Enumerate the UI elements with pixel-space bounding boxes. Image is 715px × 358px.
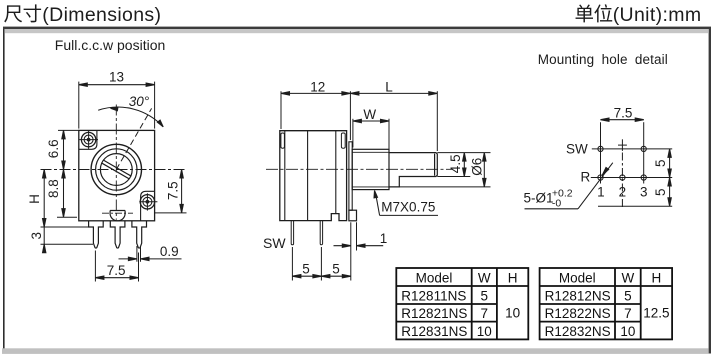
side view: pin B: [320, 221, 322, 245]
svg-text:10: 10: [477, 324, 492, 339]
svg-text:7.5: 7.5: [166, 181, 181, 200]
svg-text:R12812NS: R12812NS: [545, 289, 611, 304]
detail: hole 1: [598, 175, 603, 180]
svg-text:5: 5: [624, 289, 632, 304]
dimension 1 (lug): [334, 222, 388, 250]
svg-text:5: 5: [481, 289, 489, 304]
svg-text:10: 10: [505, 306, 520, 321]
svg-text:H: H: [508, 271, 518, 286]
svg-text:12.5: 12.5: [643, 306, 669, 321]
front view: pin 3: [132, 221, 147, 248]
svg-text:-0: -0: [552, 198, 561, 210]
svg-text:R12832NS: R12832NS: [545, 324, 611, 339]
svg-text:Mounting hole detail: Mounting hole detail: [538, 52, 668, 67]
dimension 7.5 (hole spacing): [601, 106, 644, 122]
dimension 8.8: [46, 170, 77, 218]
side view: crimp tab top-right: [341, 133, 345, 148]
svg-text:L: L: [385, 79, 393, 94]
front view: pin 2: [110, 221, 125, 248]
dimension 5 5 (side pins): [292, 222, 350, 280]
svg-text:R12831NS: R12831NS: [401, 324, 467, 339]
svg-text:7.5: 7.5: [107, 263, 126, 278]
svg-text:0.9: 0.9: [160, 244, 179, 259]
svg-text:8.8: 8.8: [46, 179, 61, 198]
svg-text:30°: 30°: [129, 94, 150, 109]
svg-text:(Unit):mm: (Unit):mm: [613, 4, 702, 26]
side view: body outline with bottom step: [280, 131, 347, 221]
side view: centerline: [266, 168, 453, 170]
front view: shaft circles: [91, 144, 141, 194]
detail: hole 2: [620, 175, 625, 180]
side view: shaft with flat: [389, 153, 437, 187]
frame bottom gray bar: [2, 348, 709, 354]
svg-text:R: R: [581, 170, 591, 185]
svg-text:W: W: [363, 107, 376, 122]
svg-text:5-Ø1: 5-Ø1: [524, 191, 554, 206]
svg-text:M7X0.75: M7X0.75: [381, 200, 435, 215]
svg-text:5: 5: [653, 188, 668, 196]
side view: mounting plate: [349, 142, 352, 210]
svg-text:1: 1: [380, 231, 388, 246]
dimension 30 degrees arc: [98, 94, 163, 127]
frame right border: [709, 29, 711, 354]
dimension 7.5 (pin span): [95, 251, 138, 282]
svg-text:5: 5: [653, 160, 668, 168]
svg-text:6.6: 6.6: [46, 139, 61, 158]
detail: hole SW right: [641, 146, 646, 151]
side view: crimp tab top-left: [281, 133, 285, 148]
front view: screwdriver slot: [101, 160, 131, 179]
detail: hole 3: [641, 175, 646, 180]
dimension 3 (pin length): [29, 227, 93, 253]
dimension 5 (row spacing lower): [653, 178, 671, 207]
frame left border: [3, 29, 5, 349]
svg-text:SW: SW: [263, 235, 286, 251]
svg-text:Model: Model: [559, 271, 596, 286]
detail: R row line: [591, 177, 672, 179]
front view: screw boss top-left: [79, 130, 97, 149]
svg-text:1: 1: [597, 185, 605, 200]
dimension 12 (body depth): [281, 79, 350, 140]
front view: body outline: [79, 130, 155, 220]
svg-text:R12822NS: R12822NS: [545, 306, 611, 321]
front view: screw top-left: [80, 131, 99, 149]
svg-text:13: 13: [109, 70, 124, 85]
svg-text:5: 5: [332, 262, 340, 277]
svg-text:4.5: 4.5: [448, 154, 463, 173]
dimension 0.9 (pin width): [119, 244, 182, 262]
svg-text:5: 5: [302, 262, 310, 277]
svg-text:H: H: [652, 271, 662, 286]
dimension L (shaft length): [350, 79, 437, 151]
front view: notch centerline: [102, 212, 133, 214]
dimension diameter 6: [399, 153, 490, 187]
front view: bottom keying notch: [110, 211, 125, 221]
svg-text:3: 3: [640, 185, 648, 200]
side view: pin A: [291, 221, 293, 245]
dimension 6.6: [46, 130, 79, 169]
dimension 4.5 (flat): [437, 153, 470, 177]
front view: pin 1: [89, 221, 104, 248]
dimension 7.5 (right side): [155, 170, 187, 213]
label 5-diameter-1 with tolerance: [524, 188, 573, 210]
label M7X0.75 with leader: [374, 191, 438, 216]
leader line for 5-diameter-1: [525, 163, 613, 209]
detail: hole SW left: [598, 146, 603, 151]
front view: 30deg dashed pointer line: [116, 108, 151, 169]
svg-text:7: 7: [481, 306, 489, 321]
svg-text:10: 10: [620, 324, 635, 339]
front view: screw bottom-right: [139, 193, 157, 210]
front view: horizontal centerline: [41, 169, 187, 171]
title: chinese 单位: [576, 4, 613, 22]
side view: locating lug: [349, 210, 357, 221]
table 1 (R128x1NS): [396, 268, 528, 339]
detail: left column line: [600, 122, 602, 183]
svg-text:Ø6: Ø6: [469, 158, 484, 176]
svg-text:Full.c.c.w position: Full.c.c.w position: [55, 37, 165, 53]
frame top gray band: [5, 29, 708, 33]
svg-text:R12821NS: R12821NS: [401, 306, 467, 321]
side view: threaded bushing: [352, 149, 389, 189]
svg-text:(Dimensions): (Dimensions): [42, 4, 161, 26]
svg-text:3: 3: [29, 232, 44, 240]
detail: pin numbers 1 2 3: [597, 185, 647, 200]
side view: inner vertical lines: [285, 131, 336, 221]
front view: screw boss bottom-right: [141, 191, 155, 221]
svg-text:7: 7: [624, 306, 632, 321]
detail: right column line: [643, 122, 645, 183]
dimension 5 (row spacing upper): [653, 149, 671, 178]
detail: bottom extension line: [598, 205, 672, 207]
svg-text:H: H: [27, 194, 42, 204]
dimension 13 (front width): [79, 70, 155, 129]
detail: SW row line: [592, 148, 672, 150]
svg-text:7.5: 7.5: [614, 106, 633, 121]
detail: center cross: [618, 139, 627, 151]
svg-text:Model: Model: [416, 271, 453, 286]
dimension W (thread length): [353, 107, 389, 151]
svg-text:SW: SW: [566, 141, 588, 156]
title: chinese 尺寸: [4, 4, 41, 22]
frame top dark line: [3, 27, 711, 29]
svg-text:W: W: [478, 271, 491, 286]
svg-text:12: 12: [310, 79, 325, 94]
front view: vertical centerline: [115, 105, 117, 220]
svg-text:2: 2: [619, 185, 627, 200]
svg-text:R12811NS: R12811NS: [401, 289, 466, 304]
table 2 (R128x2NS): [540, 268, 673, 339]
detail: center column line: [621, 153, 623, 209]
dimension H: [27, 170, 46, 228]
svg-text:W: W: [621, 271, 634, 286]
